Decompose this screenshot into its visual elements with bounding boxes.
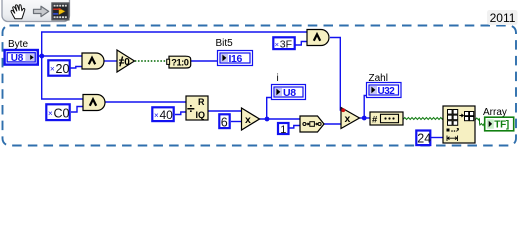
svg-text:×: × <box>48 109 53 118</box>
svg-text:IQ: IQ <box>196 110 206 120</box>
svg-text:40: 40 <box>160 108 174 122</box>
svg-text:U32: U32 <box>378 86 396 97</box>
svg-text:2011: 2011 <box>490 11 516 25</box>
svg-text:×: × <box>50 65 55 74</box>
svg-text:I16: I16 <box>229 53 243 65</box>
svg-text:R: R <box>198 97 205 107</box>
svg-text:TF]: TF] <box>494 120 509 131</box>
svg-text:Byte: Byte <box>8 39 28 50</box>
svg-text:?1:0: ?1:0 <box>171 57 188 67</box>
svg-text:U8: U8 <box>11 53 24 64</box>
svg-text:Array: Array <box>483 107 507 118</box>
svg-text:Bit5: Bit5 <box>216 38 234 49</box>
svg-text:x: x <box>245 114 251 126</box>
svg-text:6: 6 <box>221 116 228 130</box>
svg-text:×: × <box>154 111 159 120</box>
svg-text:0: 0 <box>124 57 130 68</box>
svg-text:20: 20 <box>56 62 70 76</box>
svg-text:1: 1 <box>280 124 286 136</box>
svg-text:C0: C0 <box>54 107 70 121</box>
svg-text:U8: U8 <box>283 87 296 99</box>
svg-text:24: 24 <box>417 132 431 146</box>
svg-text:÷: ÷ <box>187 100 195 116</box>
svg-text:×: × <box>275 40 279 49</box>
svg-text:x: x <box>345 113 351 125</box>
svg-text:3F: 3F <box>280 38 292 50</box>
svg-text:i: i <box>277 73 279 84</box>
svg-text:#: # <box>372 115 378 126</box>
